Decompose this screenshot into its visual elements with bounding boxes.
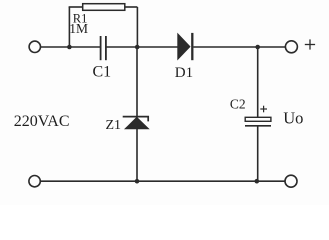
wire C2 lower vertical: [257, 126, 259, 181]
wire R1 right vertical: [136, 7, 138, 47]
svg-text:220VAC: 220VAC: [14, 113, 70, 130]
terminal input top: [29, 41, 40, 52]
wire Z1 upper vertical: [136, 47, 138, 117]
terminal input bottom: [29, 176, 40, 187]
svg-text:C1: C1: [93, 63, 112, 80]
wire R1 top right horizontal: [125, 6, 138, 8]
wire C2 upper vertical: [257, 47, 259, 117]
svg-text:Z1: Z1: [106, 118, 122, 133]
svg-text:Uo: Uo: [283, 108, 303, 127]
wire R1 top left horizontal: [69, 6, 83, 8]
terminal output bottom: [285, 175, 297, 187]
diode D1: [178, 33, 193, 60]
svg-text:D1: D1: [175, 65, 193, 81]
wire top middle: C1 right plate to D1 anode: [106, 46, 178, 48]
plus sign at C2: [260, 106, 267, 113]
resistor R1: [83, 4, 125, 11]
wire R1 left vertical: [68, 7, 70, 47]
plus sign at output terminal: [305, 39, 315, 49]
capacitor C2 (electrolytic): [245, 117, 271, 126]
terminal output top: [285, 41, 297, 53]
wire Z1 lower vertical: [136, 129, 138, 181]
wire top left: input terminal to C1 left plate: [41, 46, 101, 48]
node: junction top-mid (R1/Z1 tap): [135, 45, 140, 50]
zener diode Z1: [123, 117, 149, 129]
node: junction bottom C2: [254, 179, 259, 184]
wire top right: D1 cathode to output terminal: [194, 46, 286, 48]
node: junction bottom Z1: [135, 179, 140, 184]
wire bottom: return line: [41, 180, 285, 182]
node: junction top-right (C2 tap): [255, 45, 260, 50]
svg-text:C2: C2: [230, 96, 246, 111]
node: junction top-left (R1/C1 tap): [67, 45, 72, 50]
capacitor C1: [101, 36, 106, 60]
svg-text:1M: 1M: [69, 21, 88, 36]
